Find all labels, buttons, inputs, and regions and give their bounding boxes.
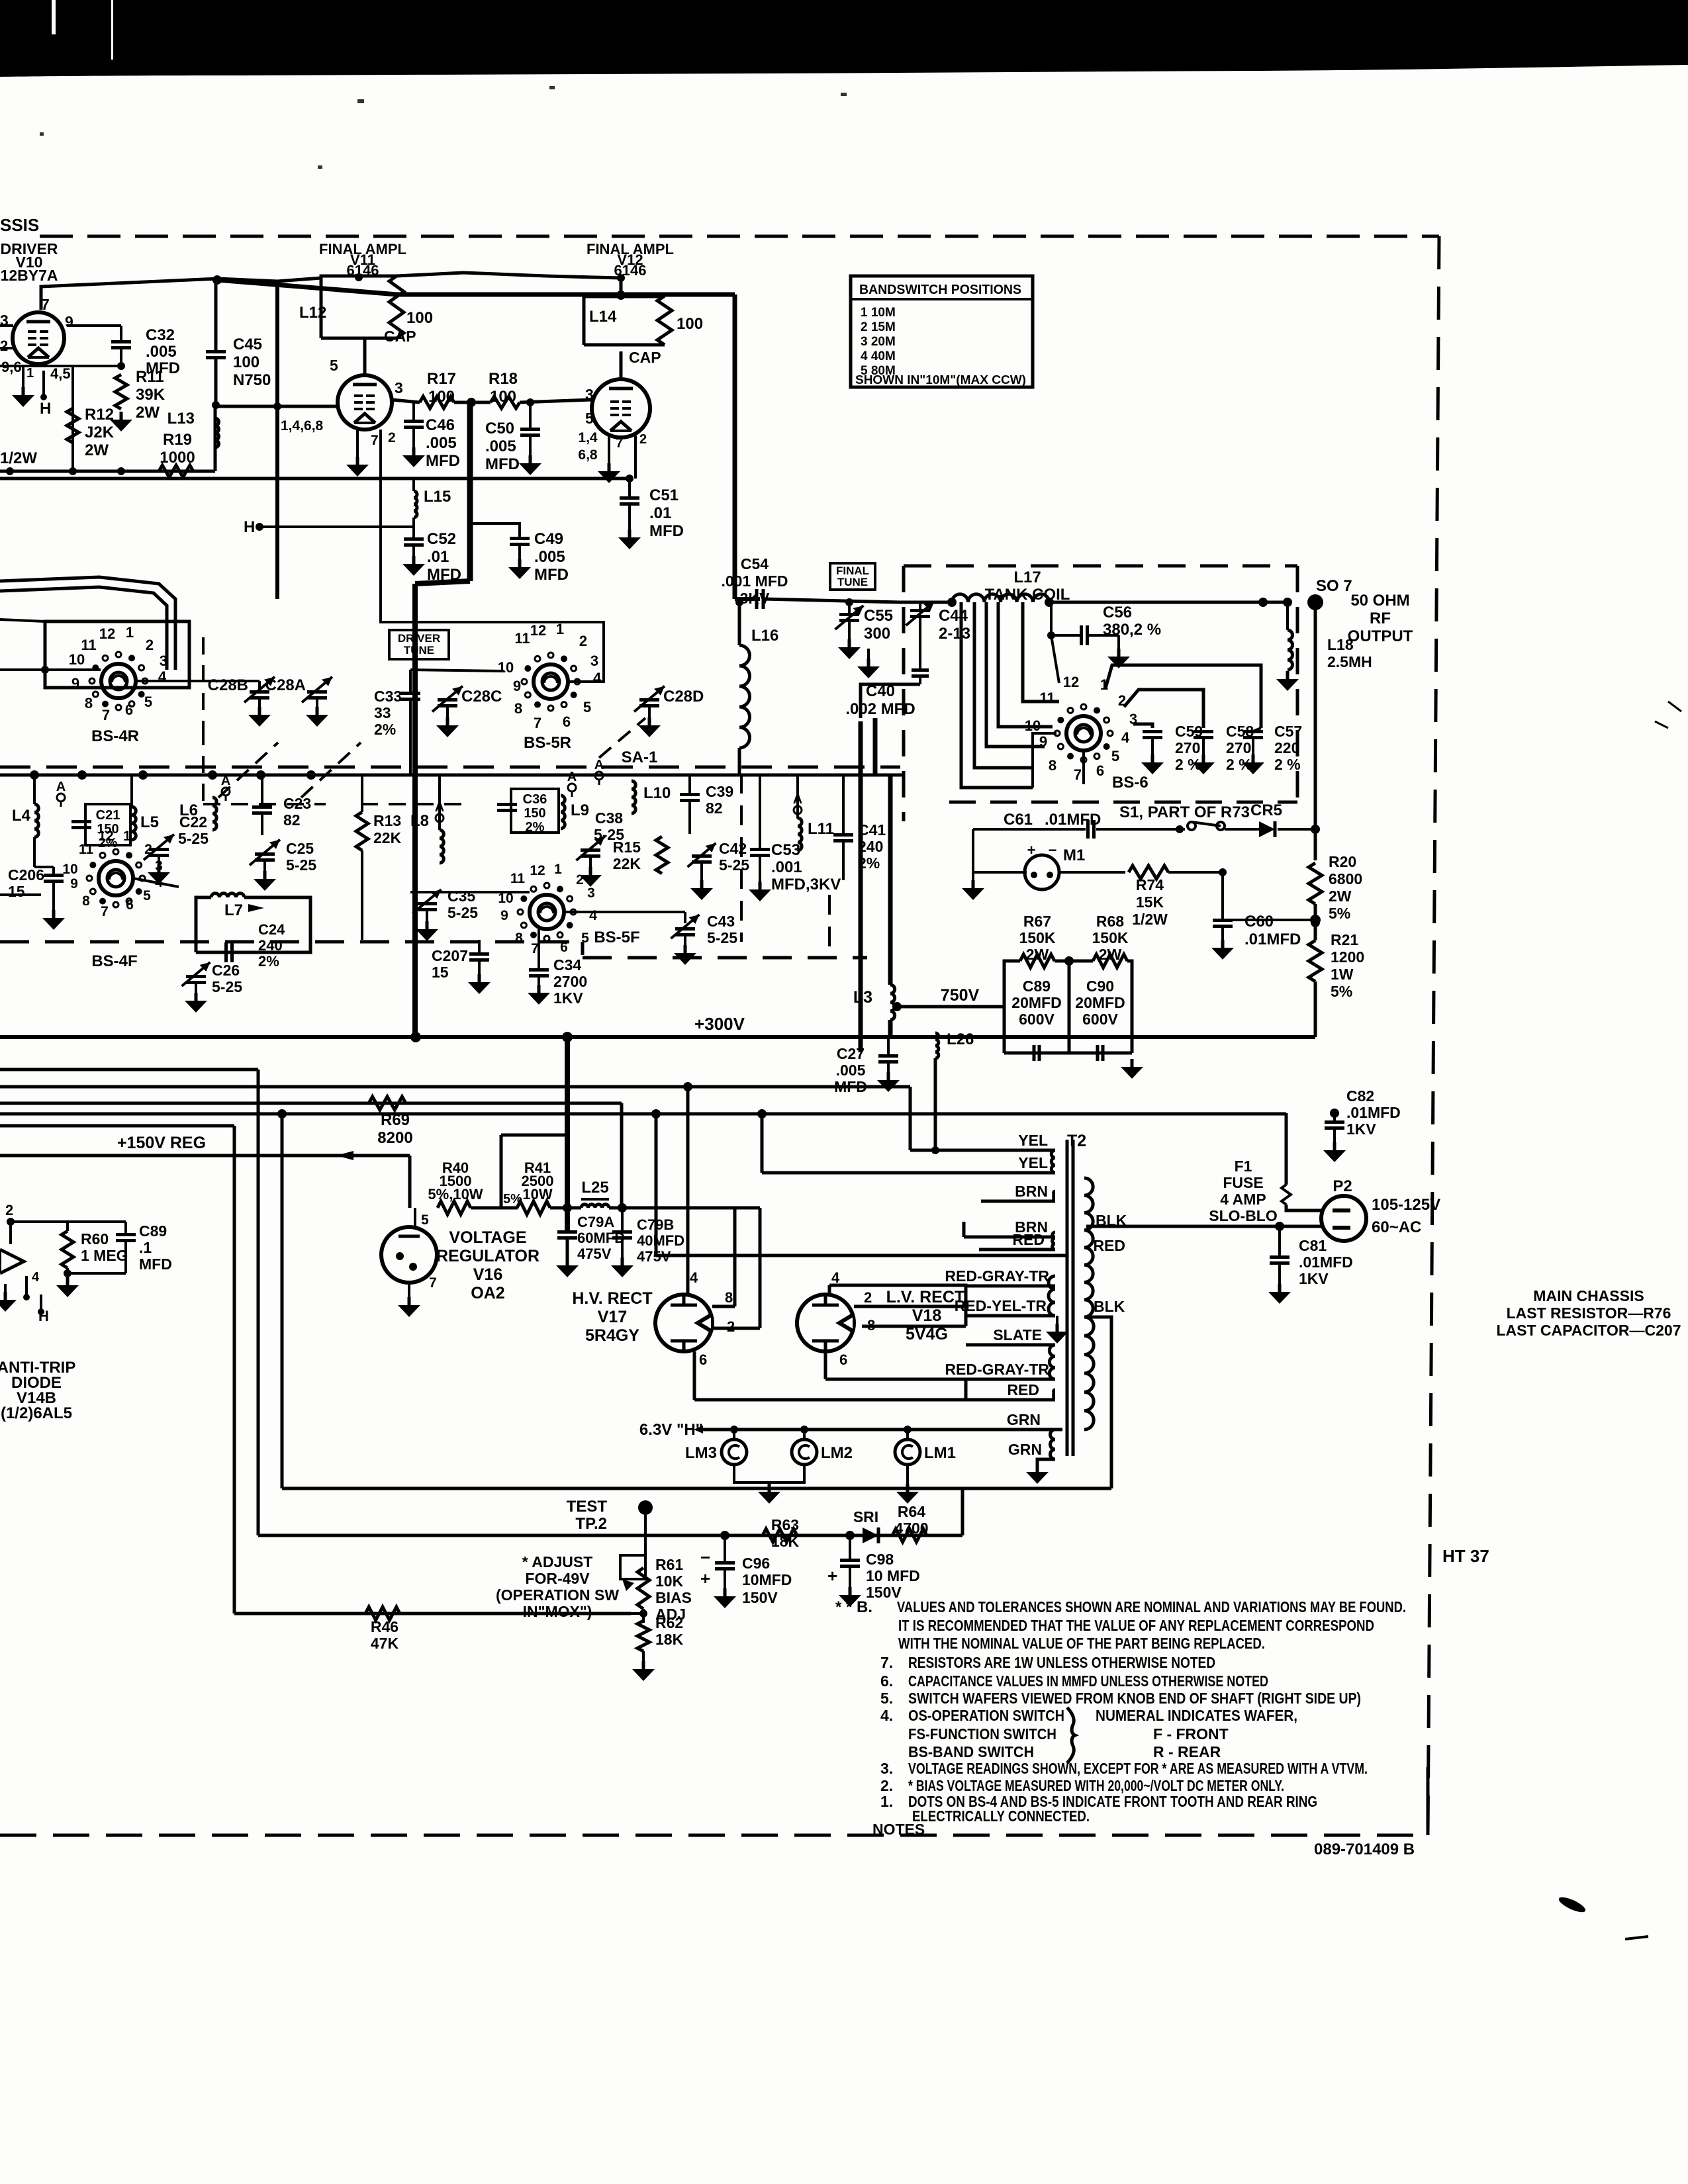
- svg-text:L8: L8: [410, 812, 429, 830]
- svg-text:C51: C51: [649, 486, 679, 504]
- svg-text:10: 10: [69, 651, 85, 668]
- svg-text:FOR-49V: FOR-49V: [525, 1570, 590, 1587]
- svg-text:C38: C38: [595, 809, 623, 827]
- svg-text:L7: L7: [224, 901, 243, 919]
- svg-text:M1: M1: [1063, 846, 1085, 864]
- svg-text:C44: C44: [939, 607, 968, 625]
- svg-text:475V: 475V: [577, 1246, 612, 1262]
- svg-text:* BIAS VOLTAGE MEASURED WITH 2: * BIAS VOLTAGE MEASURED WITH 20,000~/VOL…: [908, 1777, 1284, 1794]
- svg-text:A: A: [594, 758, 604, 772]
- svg-text:R17: R17: [427, 370, 456, 388]
- svg-text:IN"MOX"): IN"MOX"): [523, 1603, 592, 1620]
- svg-text:8: 8: [515, 931, 523, 946]
- svg-text:5-25: 5-25: [286, 856, 316, 874]
- svg-text:OS-OPERATION SWITCH: OS-OPERATION SWITCH: [908, 1707, 1064, 1724]
- svg-text:A: A: [567, 770, 577, 784]
- svg-text:5: 5: [585, 410, 594, 427]
- svg-text:(OPERATION SW: (OPERATION SW: [496, 1586, 619, 1604]
- svg-text:5%,10W: 5%,10W: [428, 1186, 483, 1203]
- svg-text:15: 15: [432, 964, 449, 981]
- svg-text:2%: 2%: [374, 721, 396, 738]
- svg-text:MFD: MFD: [139, 1255, 172, 1273]
- svg-text:12: 12: [98, 829, 113, 844]
- svg-text:C53: C53: [771, 841, 800, 859]
- svg-text:RED-GRAY-TR: RED-GRAY-TR: [945, 1267, 1049, 1285]
- svg-text:750V: 750V: [941, 986, 980, 1005]
- svg-text:.01MFD: .01MFD: [1299, 1253, 1353, 1271]
- svg-text:10: 10: [62, 862, 77, 877]
- svg-text:C96: C96: [742, 1555, 770, 1572]
- svg-text:089-701409 B: 089-701409 B: [1314, 1841, 1415, 1858]
- svg-text:.001: .001: [771, 858, 802, 876]
- svg-text:BS-5R: BS-5R: [524, 734, 571, 752]
- svg-text:40MFD: 40MFD: [637, 1232, 684, 1249]
- svg-text:R19: R19: [163, 431, 192, 449]
- svg-text:.005: .005: [534, 548, 565, 566]
- svg-text:20MFD: 20MFD: [1075, 994, 1125, 1011]
- svg-text:C28A: C28A: [265, 676, 306, 694]
- svg-text:22K: 22K: [613, 855, 641, 872]
- svg-text:2%: 2%: [258, 953, 279, 970]
- svg-text:C40: C40: [866, 682, 895, 700]
- svg-text:.005: .005: [426, 434, 457, 452]
- svg-text:2: 2: [146, 637, 154, 653]
- svg-text:1200: 1200: [1331, 948, 1364, 966]
- svg-text:C206: C206: [8, 866, 44, 884]
- svg-text:C45: C45: [233, 336, 262, 353]
- svg-text:H.V. RECT: H.V. RECT: [572, 1289, 652, 1308]
- svg-text:5-25: 5-25: [178, 830, 209, 847]
- svg-text:+: +: [1027, 842, 1036, 858]
- svg-text:150V: 150V: [742, 1589, 778, 1606]
- svg-text:C50: C50: [485, 420, 514, 437]
- svg-text:3: 3: [590, 653, 598, 669]
- svg-text:2.5MH: 2.5MH: [1327, 653, 1372, 670]
- svg-text:.005: .005: [146, 343, 177, 361]
- svg-text:1W: 1W: [1331, 966, 1354, 983]
- svg-text:8200: 8200: [377, 1129, 412, 1147]
- svg-text:R62: R62: [655, 1614, 683, 1631]
- svg-text:4: 4: [589, 908, 597, 923]
- svg-text:C55: C55: [864, 607, 893, 625]
- svg-text:C57: C57: [1274, 723, 1302, 740]
- svg-text:3.: 3.: [880, 1760, 893, 1777]
- svg-text:LM3: LM3: [685, 1444, 717, 1462]
- svg-text:6: 6: [839, 1351, 847, 1368]
- svg-text:6: 6: [699, 1351, 707, 1368]
- svg-text:L15: L15: [424, 488, 451, 506]
- svg-text:7: 7: [616, 436, 623, 451]
- svg-text:WITH THE NOMINAL VALUE OF THE: WITH THE NOMINAL VALUE OF THE PART BEING…: [898, 1635, 1265, 1652]
- svg-text:1KV: 1KV: [1299, 1270, 1329, 1287]
- svg-text:L16: L16: [751, 627, 778, 645]
- svg-text:MFD: MFD: [485, 455, 520, 473]
- svg-text:R63: R63: [771, 1516, 799, 1533]
- svg-text:NOTES: NOTES: [872, 1821, 925, 1838]
- svg-text:2: 2: [576, 872, 584, 887]
- svg-text:L4: L4: [12, 807, 31, 825]
- svg-text:RESISTORS ARE 1W UNLESS OT: RESISTORS ARE 1W UNLESS OTHERWISE NOTED: [908, 1654, 1215, 1671]
- svg-text:N750: N750: [233, 371, 271, 389]
- svg-text:7: 7: [101, 904, 109, 919]
- svg-text:100: 100: [428, 388, 455, 406]
- svg-text:R20: R20: [1329, 853, 1356, 870]
- svg-text:C34: C34: [553, 956, 581, 974]
- svg-text:R12: R12: [85, 406, 114, 424]
- svg-text:T2: T2: [1067, 1132, 1086, 1150]
- svg-text:5: 5: [330, 357, 338, 374]
- svg-text:5-25: 5-25: [719, 856, 749, 874]
- svg-text:C207: C207: [432, 947, 468, 964]
- svg-text:6: 6: [563, 713, 571, 730]
- svg-text:L18: L18: [1327, 636, 1354, 653]
- svg-text:BS-6: BS-6: [1112, 774, 1149, 792]
- svg-text:MFD,3KV: MFD,3KV: [771, 876, 841, 893]
- svg-text:L9: L9: [571, 801, 589, 819]
- svg-text:MAIN CHASSIS: MAIN CHASSIS: [1533, 1287, 1644, 1304]
- svg-text:C21: C21: [96, 808, 120, 823]
- svg-text:C98: C98: [866, 1551, 894, 1568]
- svg-text:4700: 4700: [894, 1520, 928, 1537]
- svg-text:VOLTAGE READINGS SHOWN, EXCEPT: VOLTAGE READINGS SHOWN, EXCEPT FOR * ARE…: [908, 1760, 1368, 1777]
- svg-text:5%: 5%: [503, 1192, 522, 1206]
- svg-text:10 MFD: 10 MFD: [866, 1567, 920, 1584]
- svg-text:C89: C89: [1023, 978, 1051, 995]
- svg-text:6: 6: [1096, 762, 1104, 779]
- svg-text:C58: C58: [1226, 723, 1254, 740]
- svg-text:11: 11: [79, 842, 94, 857]
- svg-text:5: 5: [143, 888, 151, 903]
- svg-text:.005: .005: [836, 1062, 866, 1079]
- svg-text:BANDSWITCH POSITIONS: BANDSWITCH POSITIONS: [859, 283, 1021, 297]
- svg-text:DRIVER: DRIVER: [398, 632, 440, 645]
- svg-text:−: −: [700, 1547, 710, 1567]
- svg-text:+: +: [700, 1569, 710, 1588]
- svg-text:1,4: 1,4: [578, 430, 598, 445]
- svg-text:8: 8: [82, 893, 90, 909]
- svg-text:10MFD: 10MFD: [742, 1571, 792, 1588]
- svg-text:SSIS: SSIS: [0, 215, 39, 235]
- svg-text:.001 MFD: .001 MFD: [722, 572, 788, 590]
- svg-text:OA2: OA2: [471, 1284, 504, 1302]
- svg-text:4: 4: [158, 668, 167, 685]
- svg-text:C61: C61: [1004, 811, 1033, 829]
- svg-text:R - REAR: R - REAR: [1153, 1743, 1221, 1760]
- svg-text:MFD: MFD: [649, 522, 684, 540]
- svg-text:L5: L5: [140, 813, 159, 831]
- svg-text:2%: 2%: [526, 820, 545, 835]
- svg-text:.01: .01: [649, 504, 671, 522]
- svg-text:H: H: [40, 400, 51, 418]
- svg-text:11: 11: [1039, 690, 1055, 706]
- svg-text:3 20M: 3 20M: [861, 335, 896, 349]
- svg-text:BLK: BLK: [1094, 1298, 1125, 1315]
- svg-text:4: 4: [690, 1269, 698, 1286]
- svg-text:V18: V18: [912, 1306, 942, 1325]
- svg-text:YEL: YEL: [1018, 1154, 1048, 1171]
- svg-text:5-25: 5-25: [212, 978, 242, 995]
- svg-text:VALUES AND TOLERANCES SHOWN AR: VALUES AND TOLERANCES SHOWN ARE NOMINAL …: [897, 1598, 1406, 1615]
- svg-text:BS-4R: BS-4R: [91, 727, 139, 745]
- svg-text:RF: RF: [1370, 610, 1391, 627]
- svg-text:R64: R64: [898, 1503, 925, 1520]
- svg-text:L11: L11: [808, 820, 834, 838]
- svg-text:4 AMP: 4 AMP: [1220, 1191, 1266, 1208]
- svg-text:+: +: [827, 1566, 837, 1586]
- svg-text:C36: C36: [523, 792, 547, 807]
- svg-text:FUSE: FUSE: [1223, 1174, 1263, 1191]
- svg-text:6800: 6800: [1329, 870, 1362, 887]
- svg-text:7.: 7.: [880, 1654, 893, 1671]
- svg-text:C54: C54: [741, 555, 769, 572]
- svg-text:4 40M: 4 40M: [861, 349, 896, 363]
- svg-text:P2: P2: [1333, 1177, 1352, 1195]
- svg-text:1: 1: [26, 366, 34, 381]
- svg-text:300: 300: [864, 625, 890, 643]
- svg-text:4: 4: [1121, 729, 1130, 746]
- svg-text:1: 1: [123, 829, 131, 844]
- svg-text:FS-FUNCTION SWITCH: FS-FUNCTION SWITCH: [908, 1725, 1056, 1743]
- svg-text:9: 9: [65, 313, 73, 330]
- svg-text:10K: 10K: [655, 1572, 684, 1590]
- svg-text:220: 220: [1274, 739, 1299, 756]
- svg-text:9: 9: [1039, 733, 1047, 750]
- svg-text:4.: 4.: [880, 1707, 893, 1724]
- svg-text:R68: R68: [1096, 913, 1124, 930]
- svg-text:6: 6: [125, 702, 133, 718]
- svg-text:2 15M: 2 15M: [861, 320, 896, 334]
- svg-text:2: 2: [864, 1289, 872, 1306]
- svg-text:1KV: 1KV: [553, 989, 583, 1007]
- svg-text:270: 270: [1226, 739, 1251, 756]
- svg-text:.01MFD: .01MFD: [1244, 931, 1301, 948]
- svg-text:R74: R74: [1136, 876, 1164, 893]
- svg-text:150: 150: [524, 806, 545, 821]
- svg-text:3: 3: [587, 886, 595, 901]
- svg-text:150K: 150K: [1019, 929, 1056, 946]
- svg-text:82: 82: [283, 811, 301, 829]
- svg-text:L25: L25: [581, 1179, 608, 1197]
- svg-text:.01: .01: [427, 548, 449, 566]
- svg-text:100: 100: [677, 315, 703, 333]
- svg-text:11: 11: [81, 637, 96, 653]
- svg-text:1 10M: 1 10M: [861, 306, 896, 320]
- svg-text:L12: L12: [299, 304, 326, 322]
- svg-text:RED: RED: [1012, 1231, 1045, 1248]
- svg-text:9: 9: [500, 908, 508, 923]
- svg-text:8: 8: [85, 695, 93, 711]
- svg-text:5.: 5.: [880, 1690, 893, 1707]
- svg-text:100: 100: [406, 309, 433, 327]
- svg-text:C82: C82: [1346, 1087, 1374, 1105]
- svg-text:15: 15: [8, 883, 25, 900]
- svg-text:5-25: 5-25: [447, 904, 478, 921]
- svg-text:600V: 600V: [1082, 1011, 1118, 1028]
- svg-text:C28B: C28B: [208, 676, 248, 694]
- svg-text:IT IS RECOMMENDED THAT THE VAL: IT IS RECOMMENDED THAT THE VALUE OF ANY …: [898, 1617, 1374, 1634]
- svg-text:6: 6: [126, 897, 134, 913]
- svg-text:C46: C46: [426, 416, 455, 434]
- svg-text:RED: RED: [1093, 1237, 1125, 1254]
- svg-text:2 %: 2 %: [1274, 756, 1301, 773]
- svg-text:20MFD: 20MFD: [1011, 994, 1061, 1011]
- svg-text:SO 7: SO 7: [1316, 577, 1352, 595]
- svg-text:(1/2)6AL5: (1/2)6AL5: [1, 1404, 72, 1422]
- svg-text:18K: 18K: [771, 1533, 800, 1550]
- svg-text:2.: 2.: [880, 1777, 893, 1794]
- svg-text:R61: R61: [655, 1556, 683, 1573]
- svg-text:10: 10: [1025, 717, 1041, 734]
- svg-text:C81: C81: [1299, 1237, 1327, 1254]
- svg-text:C28D: C28D: [663, 688, 704, 705]
- svg-text:.002 MFD: .002 MFD: [845, 700, 915, 718]
- svg-text:CAPACITANCE VALUES IN MMFD: CAPACITANCE VALUES IN MMFD UNLESS OTHERW…: [908, 1672, 1268, 1690]
- svg-text:1.: 1.: [880, 1793, 893, 1810]
- svg-text:47K: 47K: [371, 1635, 399, 1652]
- svg-text:8: 8: [725, 1289, 733, 1306]
- svg-text:C28C: C28C: [461, 688, 502, 705]
- svg-text:CAP: CAP: [629, 349, 661, 366]
- svg-text:2W: 2W: [1329, 887, 1352, 905]
- svg-text:RED: RED: [1007, 1381, 1039, 1398]
- svg-text:R13: R13: [373, 812, 401, 829]
- svg-text:BRN: BRN: [1015, 1183, 1048, 1200]
- svg-text:270: 270: [1175, 739, 1200, 756]
- svg-text:1: 1: [126, 624, 134, 641]
- svg-text:C26: C26: [212, 962, 240, 979]
- svg-text:C79A: C79A: [577, 1214, 614, 1230]
- svg-text:2W: 2W: [136, 404, 160, 422]
- svg-text:5: 5: [421, 1212, 429, 1228]
- svg-text:V17: V17: [598, 1308, 627, 1326]
- svg-text:5%: 5%: [1329, 905, 1350, 922]
- svg-text:3: 3: [155, 858, 163, 874]
- svg-text:60~AC: 60~AC: [1372, 1218, 1421, 1236]
- svg-text:C89: C89: [139, 1222, 167, 1240]
- svg-text:R11: R11: [136, 368, 164, 386]
- svg-text:2: 2: [0, 338, 8, 354]
- svg-text:12BY7A: 12BY7A: [1, 267, 58, 284]
- svg-text:8: 8: [1049, 757, 1056, 774]
- svg-text:7: 7: [102, 707, 110, 723]
- svg-text:1 MEG: 1 MEG: [81, 1247, 128, 1264]
- svg-text:6.3V "H": 6.3V "H": [639, 1421, 703, 1439]
- svg-text:C33: C33: [374, 688, 402, 705]
- svg-text:12: 12: [99, 625, 115, 642]
- svg-text:60MFD: 60MFD: [577, 1230, 625, 1246]
- svg-text:YEL: YEL: [1018, 1132, 1048, 1149]
- svg-text:10: 10: [498, 659, 514, 676]
- svg-text:12: 12: [1063, 674, 1079, 690]
- svg-text:R18: R18: [489, 370, 518, 388]
- svg-text:R60: R60: [81, 1230, 109, 1248]
- svg-text:BS-BAND SWITCH: BS-BAND SWITCH: [908, 1743, 1034, 1760]
- svg-text:1KV: 1KV: [1346, 1120, 1376, 1138]
- svg-text:2700: 2700: [553, 973, 587, 990]
- svg-text:5: 5: [583, 699, 591, 715]
- svg-text:105-125V: 105-125V: [1372, 1196, 1440, 1214]
- svg-text:TANK COIL: TANK COIL: [985, 586, 1070, 604]
- svg-text:2: 2: [579, 633, 587, 649]
- svg-text:J2K: J2K: [85, 424, 115, 441]
- svg-text:+300V: +300V: [694, 1014, 745, 1034]
- svg-text:8: 8: [514, 700, 522, 717]
- svg-text:2W: 2W: [85, 441, 109, 459]
- svg-text:TEST: TEST: [567, 1498, 608, 1516]
- svg-text:S1, PART OF R73: S1, PART OF R73: [1119, 803, 1250, 821]
- svg-text:4: 4: [32, 1270, 40, 1285]
- svg-text:9: 9: [513, 678, 521, 694]
- svg-text:R46: R46: [371, 1618, 399, 1635]
- svg-text:4: 4: [831, 1269, 840, 1286]
- svg-text:* ADJUST: * ADJUST: [522, 1553, 593, 1570]
- svg-text:+150V REG: +150V REG: [117, 1134, 206, 1152]
- svg-text:2: 2: [639, 432, 647, 447]
- svg-text:CR5: CR5: [1250, 801, 1282, 819]
- svg-text:L14: L14: [589, 308, 617, 326]
- svg-text:GRN: GRN: [1007, 1411, 1041, 1428]
- svg-text:OUTPUT: OUTPUT: [1348, 627, 1413, 645]
- svg-text:22K: 22K: [373, 829, 402, 846]
- svg-text:SWITCH WAFERS VIEWED FROM: SWITCH WAFERS VIEWED FROM KNOB END OF SH…: [908, 1690, 1361, 1707]
- svg-text:4: 4: [593, 670, 602, 686]
- svg-text:BS-5F: BS-5F: [594, 929, 639, 946]
- svg-text:4,5: 4,5: [50, 365, 71, 382]
- svg-text:SLO-BLO: SLO-BLO: [1209, 1207, 1278, 1224]
- svg-text:150K: 150K: [1092, 929, 1129, 946]
- svg-text:SHOWN IN"10M"(MAX CCW): SHOWN IN"10M"(MAX CCW): [855, 373, 1026, 387]
- svg-text:C60: C60: [1244, 913, 1274, 931]
- svg-text:12: 12: [530, 863, 545, 878]
- svg-text:50 OHM: 50 OHM: [1350, 592, 1409, 610]
- svg-text:82: 82: [706, 799, 723, 817]
- svg-text:240: 240: [258, 937, 283, 954]
- svg-text:C27: C27: [837, 1045, 865, 1062]
- svg-text:LAST RESISTOR—R76: LAST RESISTOR—R76: [1507, 1304, 1671, 1322]
- svg-text:2W: 2W: [1099, 946, 1122, 963]
- svg-text:10W: 10W: [522, 1186, 552, 1203]
- svg-text:C24: C24: [258, 921, 285, 938]
- svg-text:MFD: MFD: [534, 566, 569, 584]
- svg-text:TP.2: TP.2: [575, 1515, 607, 1533]
- svg-text:2: 2: [144, 842, 152, 857]
- svg-text:3: 3: [395, 379, 403, 396]
- svg-text:NUMERAL INDICATES WAFER,: NUMERAL INDICATES WAFER,: [1096, 1707, 1297, 1724]
- svg-text:L17: L17: [1013, 569, 1041, 586]
- svg-text:L13: L13: [167, 410, 195, 428]
- svg-text:C32: C32: [146, 326, 175, 344]
- svg-text:A: A: [221, 774, 230, 788]
- svg-text:LM2: LM2: [821, 1444, 853, 1462]
- svg-text:LAST CAPACITOR—C207: LAST CAPACITOR—C207: [1496, 1322, 1681, 1339]
- svg-text:2 %: 2 %: [1226, 756, 1252, 773]
- svg-text:L10: L10: [643, 784, 671, 802]
- svg-text:5%: 5%: [1331, 983, 1352, 1000]
- svg-text:1,4,6,8: 1,4,6,8: [281, 418, 324, 433]
- svg-text:7: 7: [429, 1275, 437, 1291]
- svg-text:6,8: 6,8: [578, 447, 598, 463]
- svg-text:SRI: SRI: [853, 1508, 878, 1525]
- svg-text:600V: 600V: [1019, 1011, 1055, 1028]
- svg-text:2: 2: [388, 430, 396, 445]
- svg-text:TUNE: TUNE: [837, 576, 868, 588]
- svg-text:REGULATOR: REGULATOR: [436, 1247, 539, 1265]
- svg-text:9: 9: [70, 876, 78, 891]
- svg-text:TUNE: TUNE: [404, 644, 434, 657]
- svg-text:7: 7: [1074, 766, 1082, 783]
- svg-text:BS-4F: BS-4F: [91, 952, 137, 970]
- svg-text:3: 3: [585, 386, 594, 403]
